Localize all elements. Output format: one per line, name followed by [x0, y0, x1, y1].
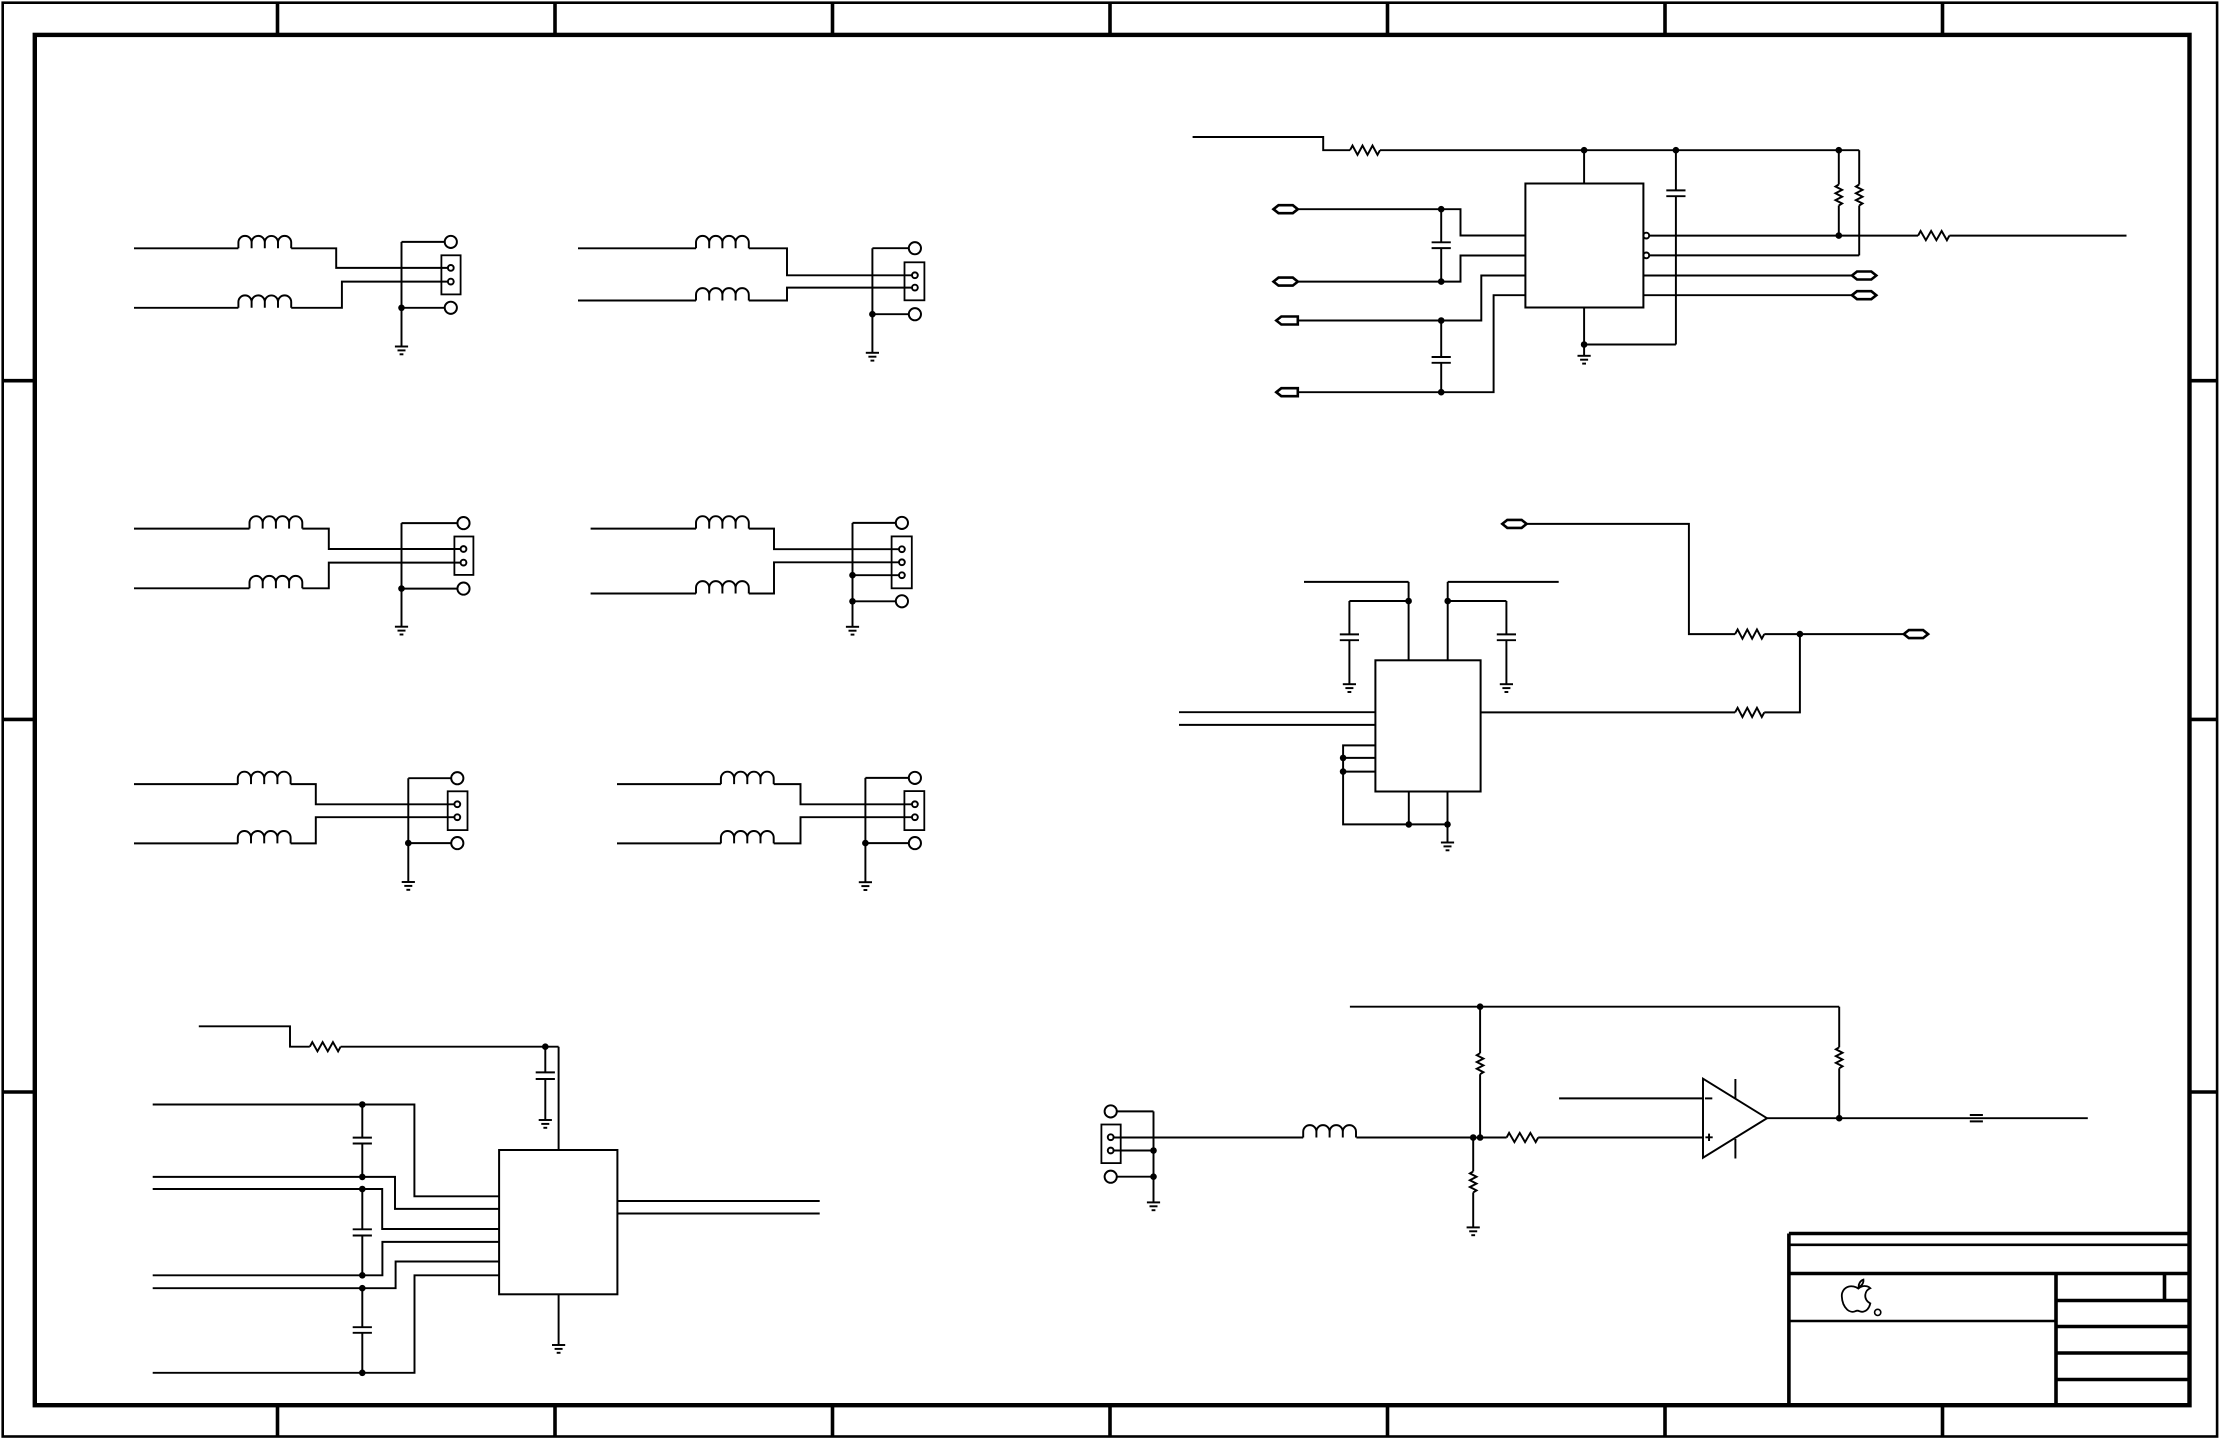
junction N1-C2 [1438, 206, 1445, 213]
connector J3 pin 1 [461, 546, 467, 552]
connector J6 pin 2 [912, 814, 918, 820]
junction J2 shell-gnd [869, 311, 876, 318]
wire J3 pin1 [302, 529, 460, 549]
wire J7 bottom shell [1117, 1176, 1154, 1178]
wire U3 gnd pin [558, 1294, 560, 1345]
border tick bottom 2 [553, 1405, 557, 1436]
wire J5 top shell [408, 777, 451, 779]
wire J1 input+ [134, 247, 238, 249]
connector J2 pin 1 [912, 272, 918, 278]
wire J6 input+ [617, 783, 721, 785]
U4 minus label [1705, 1097, 1712, 1099]
capacitor CC [361, 1288, 363, 1327]
connector J4 shell circle bottom [896, 595, 908, 607]
net tag N4 [1276, 388, 1298, 396]
wire J5 bottom shell [408, 842, 451, 844]
connector J4 pin 2 [899, 559, 905, 565]
junction N2-C2 [1438, 278, 1445, 285]
wire J2 input+ [578, 247, 696, 249]
border tick left 2 [3, 718, 35, 722]
border tick top 1 [276, 3, 280, 35]
ground J4 [846, 627, 859, 635]
wire U1 supply input [1193, 137, 1350, 150]
junction J1 shell-gnd [398, 305, 405, 312]
connector J3 shell circle bottom [457, 583, 469, 595]
resistor R4 [1918, 231, 1949, 240]
wire J4 pin2 [749, 562, 899, 593]
wire U3 output A [617, 1200, 819, 1202]
wire U1 gnd pin [1583, 308, 1585, 345]
wire U1 out3 [1643, 275, 1852, 277]
IC U3 [499, 1150, 617, 1294]
ground C5 [1500, 684, 1513, 692]
wire J7 pin2 to gnd [1114, 1150, 1154, 1152]
wire U3 line2 to pin2 [153, 1177, 499, 1209]
title block row line 1 [1789, 1244, 2190, 1247]
connector J4 shell circle top [896, 517, 908, 529]
junction signal-R9 [1477, 1134, 1484, 1141]
net tag N3 [1276, 317, 1298, 325]
wire J1 top shell [402, 241, 445, 243]
inductor L1 [238, 236, 291, 248]
inductor L6 [250, 576, 303, 588]
wire U3 line1 to pin1 [153, 1105, 499, 1197]
border tick top 3 [831, 3, 835, 35]
junction line5-CC [359, 1285, 366, 1292]
ground U1 [1578, 356, 1591, 364]
wire J6 top shell [865, 777, 909, 779]
wire J1 input- [134, 307, 238, 309]
wire J1 shield/ground vertical [401, 242, 403, 347]
wire U3 line3 to pin3 [153, 1189, 499, 1229]
resistor R2 (pull-up left) [1838, 150, 1840, 184]
junction out1-R2 [1836, 232, 1843, 239]
junction J6 shell-gnd [862, 840, 869, 847]
wire J6 input- [617, 842, 721, 844]
wire J3 input- [134, 587, 250, 589]
wire U2 input A [1179, 711, 1375, 713]
junction U1 gnd [1581, 341, 1588, 348]
border tick top 6 [1663, 3, 1667, 35]
junction J3 shell-gnd [398, 585, 405, 592]
inductor L3 [696, 236, 749, 248]
resistor R9 (bias upper) [1479, 1007, 1481, 1053]
inductor L2 [238, 295, 291, 307]
wire J6 pin2 [774, 817, 912, 843]
net tag N8 [1852, 291, 1876, 299]
ground R10 [1467, 1227, 1480, 1235]
resistor R5 [1735, 630, 1764, 639]
wire J4 input+ [591, 528, 696, 530]
junction U2 gnd2 [1444, 821, 1451, 828]
connector J7 body [1101, 1125, 1120, 1164]
net tag N5 [1502, 520, 1526, 528]
border tick top 4 [1108, 3, 1112, 35]
wire J2 pin1 [749, 248, 912, 275]
connector J6 pin 1 [912, 801, 918, 807]
wire R6 to junction [1764, 634, 1800, 712]
connector J6 shell circle top [909, 772, 921, 784]
border tick bottom 7 [1941, 1405, 1945, 1436]
wire U1 out4 [1643, 294, 1852, 296]
title block outline [1789, 1234, 2190, 1406]
op-amp U4 [1703, 1079, 1767, 1158]
U4 plus label [1705, 1134, 1712, 1141]
wire U3 supply input [199, 1026, 310, 1046]
wire U1 supply rail [1380, 149, 1859, 151]
connector J4 pin 3 [899, 572, 905, 578]
junction line6-CC [359, 1370, 366, 1377]
ground J6 [859, 882, 872, 890]
wire N5 feedback [1527, 524, 1736, 634]
resistor R1 [1350, 146, 1380, 155]
connector J1 pin 2 [448, 279, 454, 285]
wire J3 top shell [402, 522, 458, 524]
wire N2 to U1 in2 [1298, 256, 1526, 282]
wire J3 input+ [134, 528, 250, 530]
junction line2-CA [359, 1174, 366, 1181]
wire J6 pin1 [774, 784, 912, 804]
wire J4 top shell [853, 522, 896, 524]
wire J1 pin1 [291, 248, 447, 268]
ground C4 [1343, 684, 1356, 692]
wire N4 to U1 in4 [1298, 295, 1526, 392]
wire J3 shield/ground vertical [401, 523, 403, 627]
junction J7 shell [1150, 1173, 1157, 1180]
wire U1 out1 [1649, 235, 1918, 237]
ground J7 [1147, 1202, 1160, 1210]
wire U2 gnd pin2 [1447, 792, 1449, 825]
wire J7 ground vertical [1153, 1111, 1155, 1202]
connector J5 shell circle bottom [451, 837, 463, 849]
wire U1 vdd pin [1583, 150, 1585, 183]
title block right column rows [2056, 1299, 2190, 1303]
wire J4 input- [591, 593, 696, 595]
capacitor C4 [1349, 600, 1408, 602]
inductor L9 [238, 772, 291, 784]
junction output-R11 [1836, 1115, 1843, 1122]
wire J1 pin2 [291, 282, 447, 308]
title block sub divider [2163, 1274, 2167, 1301]
wire U2 to ground [1447, 824, 1449, 842]
junction supply-R2 [1836, 147, 1843, 154]
ground U3 [552, 1345, 565, 1353]
wire J2 shield/ground vertical [871, 248, 873, 353]
junction line3-CB [359, 1186, 366, 1193]
wire U4 inverting input [1559, 1097, 1703, 1099]
junction strap3 [1340, 768, 1347, 775]
junction line1-CA [359, 1101, 366, 1108]
wire R8 to opamp+ [1538, 1137, 1703, 1139]
capacitor C2 [1440, 209, 1442, 242]
border tick bottom 1 [276, 1405, 280, 1436]
inductor L8 [696, 581, 749, 593]
junction N4-C3 [1438, 389, 1445, 396]
wire J5 shield/ground vertical [407, 778, 409, 882]
wire C1 to U1 gnd [1584, 344, 1676, 346]
wire U3 vdd pin [558, 1047, 560, 1150]
wire U2 vdd pin2 [1447, 582, 1449, 660]
capacitor CB [361, 1189, 363, 1229]
wire U2 input B [1179, 724, 1375, 726]
border tick bottom 6 [1663, 1405, 1667, 1436]
wire J1 bottom shell [402, 307, 445, 309]
ground C9 [539, 1120, 552, 1128]
wire J5 input- [134, 842, 238, 844]
wire J4 shield/ground vertical [852, 523, 854, 627]
connector J4 body [892, 536, 912, 588]
wire U1 gnd stub [1583, 345, 1585, 356]
Apple registered mark [1875, 1309, 1881, 1315]
wire U3 output B [617, 1213, 819, 1215]
capacitor C3 [1440, 321, 1442, 358]
wire U2 vdd stub left [1304, 581, 1409, 583]
connector J2 shell circle bottom [909, 308, 921, 320]
capacitor C9 [544, 1047, 546, 1073]
connector J7 shell circle top [1105, 1105, 1117, 1117]
ground J2 [866, 353, 879, 361]
junction J4 shell-gnd [849, 598, 856, 605]
wire U2 strap pin3 [1343, 771, 1375, 773]
wire U2 strap pins [1343, 745, 1447, 824]
connector J5 shell circle top [451, 772, 463, 784]
junction line4-CB [359, 1272, 366, 1279]
connector J4 pin 1 [899, 546, 905, 552]
off-page marker on output [1970, 1115, 1983, 1121]
junction rail-R9 [1477, 1003, 1484, 1010]
wire J3 pin2 [302, 563, 460, 589]
resistor R11 (feedback) [1838, 1007, 1840, 1048]
net tag N1 [1274, 205, 1298, 213]
resistor R3 (pull-up right) [1858, 150, 1860, 184]
wire U3 line6 to pin6 [153, 1275, 499, 1373]
border tick left 3 [3, 1090, 35, 1094]
border tick right 1 [2190, 379, 2218, 383]
wire U3 supply rail [341, 1046, 559, 1048]
wire J4 pin3 to ground [853, 574, 899, 576]
IC U2 [1375, 660, 1480, 791]
title block logo box bottom [1789, 1320, 2056, 1323]
junction supply-C9 [542, 1043, 549, 1050]
border tick bottom 3 [831, 1405, 835, 1436]
connector J1 pin 1 [448, 265, 454, 271]
connector J3 pin 2 [461, 560, 467, 566]
wire U2 strap pin2 [1343, 757, 1375, 759]
wire U3 line4 to pin4 [153, 1242, 499, 1275]
title block row line 2 [1789, 1272, 2190, 1276]
junction J4 pin3-gnd [849, 572, 856, 579]
ground U2 [1441, 843, 1454, 851]
junction strap2 [1340, 755, 1347, 762]
wire U2 vdd stub right [1448, 581, 1559, 583]
inductor L4 [696, 288, 749, 300]
inductor L13 [1303, 1125, 1356, 1137]
border tick bottom 5 [1386, 1405, 1390, 1436]
border tick right 3 [2190, 1090, 2218, 1094]
junction R5-R6-N6 [1797, 631, 1804, 638]
junction N3-C3 [1438, 317, 1445, 324]
junction U2 gnd1 [1406, 821, 1413, 828]
wire J2 input- [578, 300, 696, 302]
connector J6 shell circle bottom [909, 837, 921, 849]
wire J3 bottom shell [402, 588, 458, 590]
net tag N2 [1274, 278, 1298, 286]
wire R5 to N6 [1764, 633, 1904, 635]
connector J1 shell circle top [445, 236, 457, 248]
inductor L11 [721, 772, 774, 784]
junction U2 vdd2-C5 [1444, 598, 1451, 605]
resistor R10 (bias lower) [1472, 1138, 1474, 1172]
border tick top 2 [553, 3, 557, 35]
junction J7 pin2 [1150, 1147, 1157, 1154]
connector J7 pin 1 [1108, 1134, 1114, 1140]
connector J5 pin 1 [454, 801, 460, 807]
junction signal-R10 [1470, 1134, 1477, 1141]
junction supply-C1 [1673, 147, 1680, 154]
connector J1 body [441, 255, 460, 294]
inductor L7 [696, 516, 749, 528]
wire N3 to U1 in3 [1298, 276, 1526, 321]
connector J6 body [904, 791, 924, 830]
connector J5 pin 2 [454, 814, 460, 820]
connector J7 pin 2 [1108, 1148, 1114, 1154]
ground J1 [395, 347, 408, 355]
wire U1 out2 [1649, 254, 1859, 256]
border tick left 1 [3, 379, 35, 383]
border tick right 2 [2190, 718, 2218, 722]
wire U4 output [1767, 1117, 2088, 1119]
wire J6 shield/ground vertical [864, 778, 866, 882]
capacitor C1 [1675, 150, 1677, 190]
net tag N6 [1904, 630, 1928, 638]
wire J2 pin2 [749, 288, 912, 301]
connector J5 body [448, 791, 468, 830]
U1 inverted output pin bubble 1 [1643, 233, 1649, 239]
inductor L12 [721, 831, 774, 843]
IC U1 [1525, 184, 1643, 308]
wire N1 to U1 in1 [1298, 209, 1526, 235]
connector J2 pin 2 [912, 285, 918, 291]
net tag N7 [1852, 272, 1876, 280]
title block main divider [2054, 1274, 2058, 1406]
wire U3 line5 to pin5 [153, 1262, 499, 1289]
ground J3 [395, 627, 408, 635]
connector J7 shell circle bottom [1105, 1171, 1117, 1183]
connector J3 shell circle top [457, 517, 469, 529]
wire J5 pin1 [291, 784, 455, 804]
connector J1 shell circle bottom [445, 302, 457, 314]
wire U2 vdd pin1 [1408, 582, 1410, 660]
wire J5 pin2 [291, 817, 455, 843]
resistor R6 [1735, 708, 1764, 717]
U4 power pins [1734, 1079, 1736, 1159]
border tick top 5 [1386, 3, 1390, 35]
U1 inverted output pin bubble 2 [1643, 253, 1649, 259]
junction U2 vdd1-C4 [1405, 598, 1412, 605]
wire J7 top shell [1117, 1110, 1154, 1112]
wire R4 output [1949, 235, 2126, 237]
wire J4 pin1 [749, 529, 899, 550]
wire U2 gnd pin1 [1408, 792, 1410, 825]
wire J5 input+ [134, 783, 238, 785]
wire J2 top shell [872, 247, 909, 249]
Apple logo [1842, 1280, 1871, 1312]
wire L13 to R8 [1356, 1137, 1506, 1139]
connector J2 body [905, 262, 925, 300]
wire U2 output [1481, 711, 1736, 713]
wire J7 signal [1114, 1137, 1304, 1139]
wire J4 bottom shell [853, 600, 896, 602]
wire U4 bias rail [1350, 1006, 1839, 1008]
junction supply-U1 vdd [1581, 147, 1588, 154]
border tick bottom 4 [1108, 1405, 1112, 1436]
resistor R8 [1507, 1133, 1539, 1142]
connector J2 shell circle top [909, 242, 921, 254]
inductor L5 [250, 516, 303, 528]
junction J5 shell-gnd [405, 840, 412, 847]
capacitor C5 [1448, 600, 1507, 602]
border tick top 7 [1941, 3, 1945, 35]
wire J2 bottom shell [872, 313, 909, 315]
ground J5 [402, 882, 415, 890]
wire J6 bottom shell [865, 842, 909, 844]
resistor R7 [310, 1042, 341, 1051]
inductor L10 [238, 831, 291, 843]
connector J3 body [454, 537, 473, 575]
capacitor CA [361, 1105, 363, 1138]
